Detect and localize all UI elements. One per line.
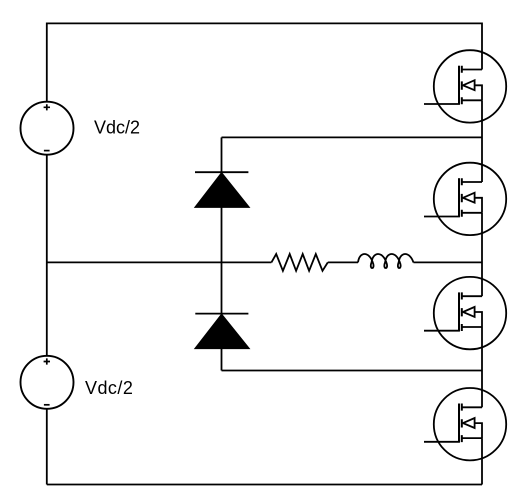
- wire resistor to inductor: [328, 261, 358, 263]
- mosfet Q4: [424, 388, 506, 460]
- wire Q1 source to Q2 drain: [481, 100, 483, 182]
- resistor R: [271, 254, 327, 271]
- diode D1: [195, 172, 250, 207]
- diode D2: [195, 314, 250, 349]
- svg-text:Vdc/2: Vdc/2: [85, 378, 133, 398]
- wire V2 to bottom rail: [46, 409, 48, 485]
- wire Q3 source to Q4 drain: [481, 327, 483, 407]
- mosfet Q1: [424, 50, 506, 122]
- voltage source V2: [21, 356, 74, 409]
- wire Q4 source to bottom rail: [481, 438, 483, 484]
- mosfet Q2: [424, 163, 506, 235]
- wire mid rail left: [47, 261, 272, 263]
- wire clamp top: [222, 136, 483, 138]
- svg-text:Vdc/2: Vdc/2: [94, 118, 140, 138]
- voltage source V1: [21, 102, 74, 155]
- wire D2 anode to clamp bottom: [221, 348, 223, 370]
- wire bottom rail: [47, 484, 482, 486]
- wire inductor to right bus: [413, 261, 482, 263]
- mosfet Q3: [424, 277, 506, 349]
- wire Q2 source to Q3 drain: [481, 213, 483, 296]
- wire clamp bottom: [222, 370, 483, 372]
- inductor L: [358, 254, 413, 268]
- wire clamp top to D1 cathode: [221, 137, 223, 172]
- wire D1 anode to D2 cathode: [221, 207, 223, 313]
- wire V1 to V2 neutral tap: [46, 155, 48, 356]
- wire top rail: [47, 23, 482, 101]
